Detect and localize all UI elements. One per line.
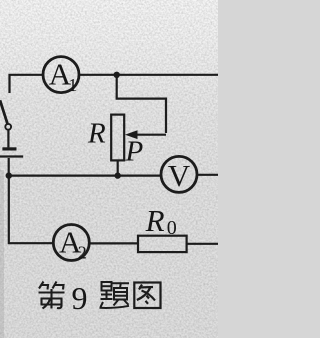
svg-text:R: R <box>145 203 165 238</box>
svg-text:V: V <box>168 158 191 193</box>
svg-text:P: P <box>125 135 144 167</box>
svg-text:2: 2 <box>78 242 87 262</box>
svg-text:9: 9 <box>72 280 88 316</box>
svg-text:1: 1 <box>68 75 77 95</box>
svg-text:R: R <box>87 118 106 150</box>
svg-text:0: 0 <box>167 217 177 239</box>
